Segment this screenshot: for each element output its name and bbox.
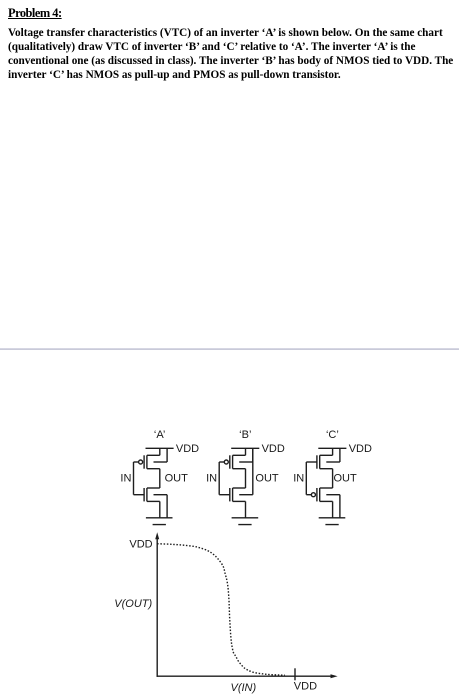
VDD rail inverter A (146, 447, 174, 449)
horizontal divider rule (0, 348, 459, 350)
wire: Q2 (NMOS pull-down) source to ground (159, 501, 161, 517)
transistor Q4 (NMOS pull-down, body to VDD) gate lead (219, 494, 230, 496)
transistor Q2 (NMOS pull-down) bottom lead (147, 500, 160, 502)
transistor Q1 (PMOS pull-up) gate lead (134, 461, 139, 463)
transistor Q1 (PMOS pull-up) channel (146, 455, 148, 468)
VTC graph X axis arrowhead (331, 674, 338, 678)
transistor Q3 (PMOS pull-up) gate lead (219, 461, 224, 463)
transistor Q2 (NMOS pull-down) top lead (147, 487, 160, 489)
transistor Q4 (NMOS pull-down, body to VDD) top lead (233, 487, 246, 489)
heading Problem 4 (8, 6, 62, 21)
svg-text:IN: IN (206, 472, 217, 484)
svg-text:VDD: VDD (176, 443, 199, 455)
wire: Q5 (NMOS pull-up) source to VDD rail (332, 448, 334, 455)
wire: Q6 (PMOS pull-down) body to ground (339, 495, 341, 518)
node IN wire inverter A (133, 462, 135, 495)
node OUT wire inverter B (245, 469, 247, 488)
wire: Q1 (PMOS pull-up) source to VDD rail (159, 448, 161, 455)
wire: Q3 (PMOS pull-up) source to VDD rail (245, 448, 247, 455)
wire: Q4 (NMOS pull-down, body to VDD) body to VDD rail (252, 448, 254, 494)
ground symbol inverter A (146, 518, 173, 525)
transistor Q5 (NMOS pull-up) body lead (326, 461, 340, 463)
transistor Q4 (NMOS pull-down, body to VDD) gate bar (229, 488, 231, 501)
transistor Q4 (NMOS pull-down, body to VDD) body lead (239, 494, 253, 496)
transistor Q6 (PMOS pull-down) channel (319, 488, 321, 501)
problem statement paragraph (8, 26, 461, 82)
transistor Q6 (PMOS pull-down) top lead (320, 487, 333, 489)
VDD rail inverter C (318, 447, 346, 449)
VDD rail inverter B (231, 447, 259, 449)
wire: Q3 (PMOS pull-up) body to VDD rail (252, 448, 254, 462)
svg-text:‘C’: ‘C’ (326, 429, 339, 441)
transistor Q6 (PMOS pull-down) gate bar (316, 488, 318, 501)
wire: Q2 (NMOS pull-down) body to ground (166, 495, 168, 518)
ground symbol inverter B (232, 518, 259, 525)
svg-text:OUT: OUT (165, 472, 189, 484)
VDD tick on X axis (294, 668, 296, 680)
wire: Q5 (NMOS pull-up) body to VDD rail (339, 448, 341, 462)
transistor Q2 (NMOS pull-down) gate bar (143, 488, 145, 501)
transistor Q4 (NMOS pull-down, body to VDD) bottom lead (233, 500, 246, 502)
svg-text:VDD: VDD (129, 538, 152, 550)
transistor Q5 (NMOS pull-up) bottom lead (320, 468, 333, 470)
svg-text:VDD: VDD (349, 443, 372, 455)
transistor Q2 (NMOS pull-down) channel (146, 488, 148, 501)
transistor Q5 (NMOS pull-up) gate lead (306, 461, 317, 463)
VTC graph Y axis (156, 539, 158, 677)
transistor Q3 (PMOS pull-up) gate bar (229, 455, 231, 468)
wire: Q1 (PMOS pull-up) body to VDD rail (166, 448, 168, 462)
svg-text:‘B’: ‘B’ (239, 429, 251, 441)
transistor Q6 (PMOS pull-down) gate lead (306, 494, 311, 496)
node OUT wire inverter A (159, 469, 161, 488)
transistor Q1 (PMOS pull-up) top lead (147, 454, 160, 456)
svg-text:‘A’: ‘A’ (154, 429, 165, 441)
transistor Q2 (NMOS pull-down) body lead (154, 494, 168, 496)
transistor Q6 (PMOS pull-down) bottom lead (320, 500, 333, 502)
transistor Q6 (PMOS pull-down) body lead (326, 494, 340, 496)
transistor Q3 (PMOS pull-up) channel (232, 455, 234, 468)
svg-text:VDD: VDD (262, 443, 285, 455)
node OUT wire inverter C (332, 469, 334, 488)
ground symbol inverter C (319, 518, 346, 525)
node IN wire inverter B (218, 462, 220, 495)
transistor Q5 (NMOS pull-up) channel (319, 455, 321, 468)
transistor Q4 (NMOS pull-down, body to VDD) channel (232, 488, 234, 501)
node IN wire inverter C (305, 462, 307, 495)
transistor Q1 (PMOS pull-up) gate bubble (139, 460, 143, 464)
transistor Q1 (PMOS pull-up) gate bar (143, 455, 145, 468)
transistor Q3 (PMOS pull-up) gate bubble (224, 460, 228, 464)
svg-text:V(OUT): V(OUT) (114, 598, 152, 610)
VTC graph Y axis arrowhead (155, 532, 159, 539)
transistor Q1 (PMOS pull-up) bottom lead (147, 468, 160, 470)
transistor Q3 (PMOS pull-up) body lead (239, 461, 253, 463)
wire: Q6 (PMOS pull-down) source to ground (332, 501, 334, 517)
VTC curve of inverter A (dotted) (157, 544, 285, 676)
svg-text:OUT: OUT (334, 472, 358, 484)
svg-text:IN: IN (293, 472, 304, 484)
transistor Q1 (PMOS pull-up) body lead (154, 461, 168, 463)
transistor Q6 (PMOS pull-down) gate bubble (311, 493, 315, 497)
transistor Q3 (PMOS pull-up) top lead (233, 454, 246, 456)
wire: Q4 (NMOS pull-down, body to VDD) source to ground (245, 501, 247, 517)
svg-text:V(IN): V(IN) (231, 682, 257, 694)
transistor Q5 (NMOS pull-up) gate bar (316, 455, 318, 468)
svg-text:OUT: OUT (255, 472, 279, 484)
transistor Q5 (NMOS pull-up) top lead (320, 454, 333, 456)
transistor Q3 (PMOS pull-up) bottom lead (233, 468, 246, 470)
transistor Q2 (NMOS pull-down) gate lead (134, 494, 145, 496)
VTC graph X axis (157, 675, 332, 677)
svg-text:VDD: VDD (294, 681, 317, 693)
svg-text:IN: IN (120, 472, 131, 484)
